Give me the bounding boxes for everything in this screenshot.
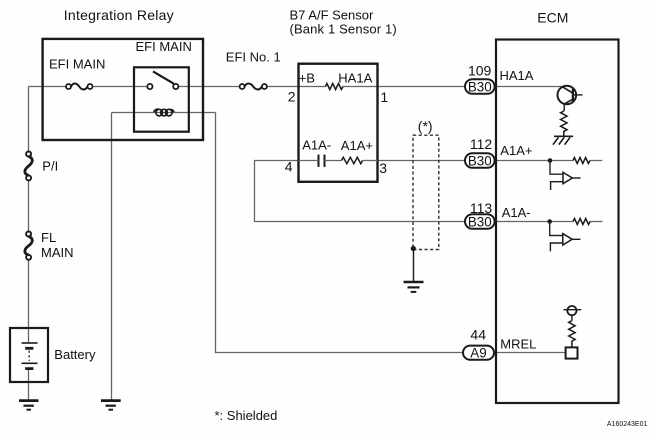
svg-text:B7 A/F Sensor: B7 A/F Sensor bbox=[290, 7, 374, 22]
resistor A1A- (in ECM) bbox=[573, 219, 590, 225]
transistor driver square (MREL in ECM) bbox=[566, 347, 578, 358]
resistor A1A+ (in sensor) bbox=[342, 157, 363, 163]
box: B7 A/F Sensor bbox=[299, 64, 378, 182]
wire: ECM A1A+ after resistor bbox=[590, 160, 602, 162]
node: A1A+ junction bbox=[548, 158, 553, 163]
wire: ECM A1A- internal bbox=[495, 221, 574, 223]
wire: ECM A1A- after resistor bbox=[590, 221, 602, 223]
svg-text:Integration Relay: Integration Relay bbox=[64, 7, 174, 23]
wire: ECM A1A+ internal bbox=[495, 160, 574, 162]
wire: relay coil right leg to MREL terminal bbox=[216, 113, 463, 353]
wire: main B+ line, left corner to EFI MAIN fuse bbox=[29, 86, 67, 88]
terminal 113 B30 oval bbox=[465, 214, 495, 229]
wire: resistor A1A+ to pin 3 bbox=[363, 160, 378, 162]
svg-text:A160243E01: A160243E01 bbox=[607, 421, 648, 428]
wire: A1A+ junction to buffer bbox=[550, 161, 563, 175]
svg-text:112: 112 bbox=[470, 136, 493, 152]
box: ECM bbox=[496, 40, 619, 404]
svg-text:EFI No. 1: EFI No. 1 bbox=[226, 50, 281, 65]
svg-text:+B: +B bbox=[299, 71, 315, 86]
wire: EFI No. 1 fuse to sensor pin 2 bbox=[267, 86, 326, 88]
svg-text:B30: B30 bbox=[468, 153, 492, 168]
wire: EFI MAIN fuse to relay switch bbox=[93, 86, 148, 88]
transistor (HA1A driver in ECM) bbox=[558, 86, 583, 111]
wire: pin4 to capacitor bbox=[299, 160, 319, 162]
ground: shield bbox=[404, 282, 424, 292]
svg-text:EFI MAIN: EFI MAIN bbox=[136, 39, 192, 54]
wire: sensor pin 3 to ECM terminal 112 bbox=[378, 160, 465, 162]
svg-text:2: 2 bbox=[288, 88, 296, 104]
power symbol B+ (in ECM above MREL) bbox=[564, 306, 582, 321]
wire: sensor pin 1 to ECM terminal 109 bbox=[378, 86, 465, 88]
wire: relay coil line bbox=[112, 112, 216, 114]
svg-text:HA1A: HA1A bbox=[338, 71, 372, 86]
wire: sensor internal +B resistor to pin 1 bbox=[343, 86, 378, 88]
svg-text:44: 44 bbox=[470, 327, 486, 343]
box: EFI MAIN relay inner bbox=[134, 67, 189, 131]
svg-text:B30: B30 bbox=[468, 214, 492, 229]
wire: relay switch to EFI No. 1 fuse bbox=[178, 86, 239, 88]
wire: battery feed left vertical (top segment) bbox=[28, 87, 30, 152]
svg-text:A1A-: A1A- bbox=[302, 137, 331, 152]
svg-text:FL: FL bbox=[41, 230, 56, 245]
wire: battery negative to ground bbox=[28, 369, 30, 401]
wire: ECM 109 to transistor bbox=[495, 86, 562, 88]
terminal 109 B30 oval bbox=[465, 79, 495, 94]
wire: ECM MREL internal bbox=[494, 352, 565, 354]
svg-text:MAIN: MAIN bbox=[41, 245, 74, 260]
wire: left vertical FL MAIN to battery bbox=[28, 260, 30, 343]
relay coil bbox=[154, 109, 175, 116]
svg-text:A1A+: A1A+ bbox=[341, 138, 373, 153]
wire: A1A- junction to buffer bbox=[550, 222, 563, 236]
node: shield drain junction bbox=[411, 246, 416, 251]
svg-text:3: 3 bbox=[379, 160, 387, 176]
resistor (transistor emitter, vertical) bbox=[561, 111, 567, 136]
svg-text:1: 1 bbox=[380, 89, 388, 105]
fuse EFI MAIN bbox=[66, 84, 93, 90]
relay switch contacts bbox=[147, 71, 178, 89]
ground: relay coil bbox=[101, 401, 121, 410]
op-amp buffer A1A- bbox=[550, 234, 580, 252]
fusible link FL MAIN bbox=[25, 232, 32, 260]
op-amp buffer A1A+ bbox=[551, 172, 581, 190]
wire: sensor pin 4 loop to ECM terminal 113 bbox=[255, 161, 465, 222]
svg-text:A1A+: A1A+ bbox=[500, 143, 532, 158]
wire: capacitor to resistor A1A+ bbox=[325, 160, 342, 162]
resistor HA1A (in sensor) bbox=[325, 84, 343, 90]
battery cells bbox=[22, 343, 38, 369]
box: Battery bbox=[10, 328, 48, 382]
box: shielded cable (*) dashed bbox=[413, 135, 439, 249]
svg-text:(*): (*) bbox=[418, 118, 433, 134]
wire: left vertical between P/I and FL MAIN bbox=[28, 180, 30, 231]
fuse EFI No. 1 bbox=[240, 84, 267, 90]
resistor (MREL pull-up, vertical) bbox=[569, 321, 575, 348]
svg-text:EFI MAIN: EFI MAIN bbox=[49, 57, 105, 72]
svg-text:HA1A: HA1A bbox=[500, 68, 534, 83]
svg-text:P/I: P/I bbox=[42, 158, 58, 173]
wire: shield drain to ground bbox=[413, 249, 415, 282]
node: A1A- junction bbox=[547, 219, 552, 224]
svg-text:109: 109 bbox=[468, 63, 492, 79]
svg-text:B30: B30 bbox=[468, 79, 492, 94]
capacitor (in sensor) bbox=[319, 155, 325, 167]
fusible link P/I bbox=[25, 152, 32, 181]
svg-text:MREL: MREL bbox=[500, 337, 536, 352]
svg-text:ECM: ECM bbox=[537, 10, 568, 26]
chassis ground (in ECM) bbox=[553, 136, 573, 144]
terminal 44 A9 oval bbox=[463, 346, 494, 360]
resistor A1A+ (in ECM) bbox=[573, 158, 590, 164]
svg-text:A9: A9 bbox=[470, 345, 486, 360]
svg-text:A1A-: A1A- bbox=[502, 205, 531, 220]
svg-text:Battery: Battery bbox=[54, 347, 96, 362]
ground: battery bbox=[19, 401, 39, 410]
svg-text:4: 4 bbox=[285, 158, 293, 174]
wire: relay coil left leg down to ground bbox=[111, 113, 113, 401]
svg-text:(Bank 1 Sensor 1): (Bank 1 Sensor 1) bbox=[290, 22, 397, 37]
svg-text:*: Shielded: *: Shielded bbox=[215, 408, 278, 423]
terminal 112 B30 oval bbox=[465, 153, 495, 168]
box: Integration Relay outer bbox=[43, 39, 203, 140]
